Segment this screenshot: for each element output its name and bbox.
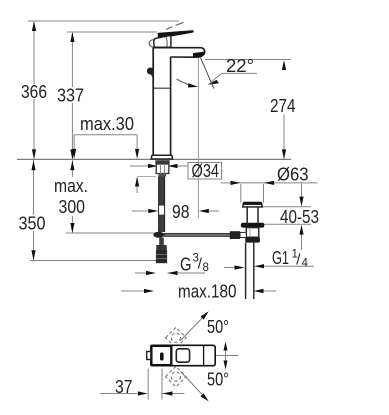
svg-text:366: 366	[21, 82, 47, 102]
svg-text:300: 300	[59, 197, 86, 217]
svg-text:350: 350	[19, 214, 46, 234]
svg-text:Ø63: Ø63	[277, 165, 309, 185]
svg-text:8: 8	[203, 262, 209, 274]
svg-text:4: 4	[302, 258, 309, 270]
svg-text:274: 274	[270, 96, 296, 116]
svg-text:37: 37	[115, 377, 133, 397]
svg-text:G: G	[180, 255, 192, 275]
svg-text:Ø34: Ø34	[192, 161, 220, 181]
svg-text:50°: 50°	[207, 370, 229, 390]
svg-text:337: 337	[57, 86, 84, 106]
svg-text:50°: 50°	[207, 317, 229, 337]
svg-text:98: 98	[172, 202, 190, 222]
svg-text:max.180: max.180	[178, 282, 237, 302]
svg-text:max.: max.	[54, 176, 88, 196]
svg-text:G1: G1	[272, 248, 289, 268]
svg-text:max.30: max.30	[80, 114, 134, 134]
svg-text:40-53: 40-53	[280, 207, 319, 227]
